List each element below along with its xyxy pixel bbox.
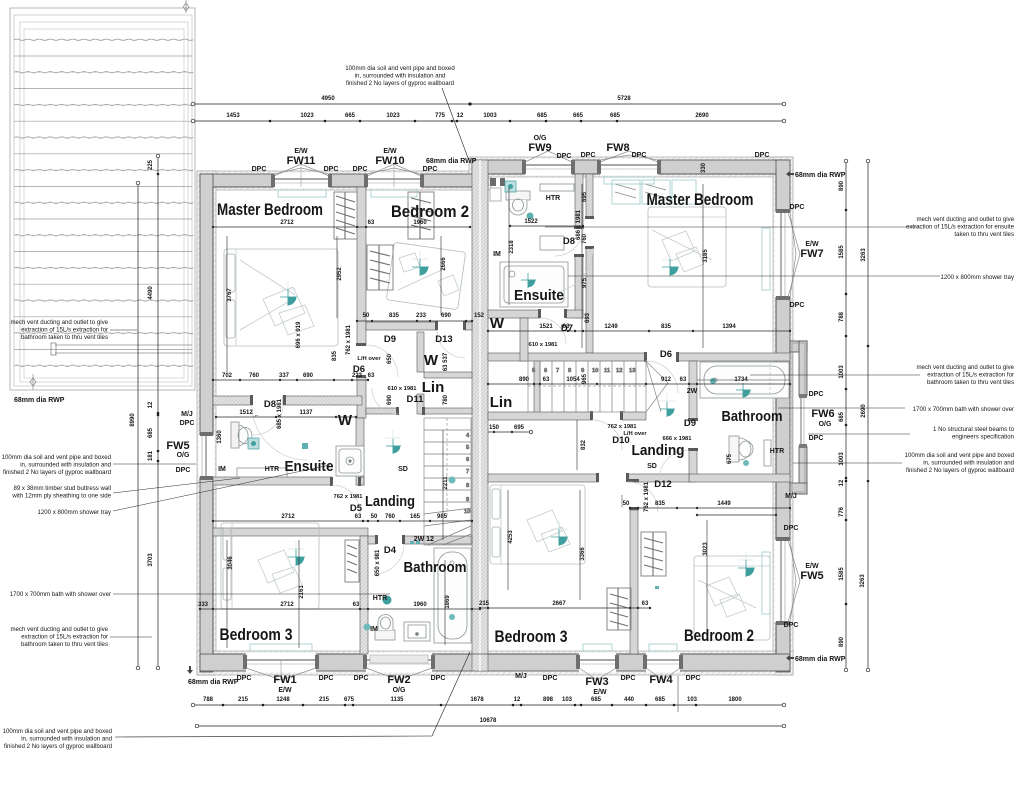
svg-text:3703: 3703 [148,553,154,567]
light bathroom right [736,383,751,398]
wall B2 bottom left house [366,322,437,330]
svg-text:2667: 2667 [552,601,566,607]
svg-text:890: 890 [519,377,530,383]
toilet bathroom right [729,436,753,462]
window FW2 [363,653,435,681]
light B2 right [738,560,755,577]
tallboy B2 left mid [367,245,393,290]
wall bedroom3 top left house [213,528,368,536]
svg-text:890: 890 [839,180,845,191]
dim row ensuite left [215,410,357,418]
svg-text:912: 912 [661,377,672,383]
svg-text:SD: SD [647,463,657,470]
svg-text:E/W: E/W [278,687,292,694]
svg-text:11: 11 [604,368,611,374]
light MB left [280,289,297,306]
svg-text:2712: 2712 [280,602,294,608]
svg-text:337: 337 [279,373,290,379]
wall top left house [200,174,488,187]
svg-text:10678: 10678 [480,718,497,724]
svg-text:3366: 3366 [580,547,586,561]
svg-text:E/W: E/W [805,563,819,570]
wall MB/B2 divider left house [357,187,366,345]
svg-text:68mm dia RWP: 68mm dia RWP [795,656,846,663]
svg-text:1200 x 800mm shower tray: 1200 x 800mm shower tray [941,274,1015,281]
svg-text:333: 333 [198,602,209,608]
svg-text:1248: 1248 [276,697,290,703]
svg-text:2W: 2W [414,536,425,543]
dimension left 8990 [130,181,140,670]
svg-text:DPC: DPC [581,152,596,159]
svg-text:Bathroom: Bathroom [404,559,467,576]
svg-text:233: 233 [416,313,427,319]
wall MB bottom / stair top right house [488,353,646,361]
dimension row bottom segments [191,697,786,707]
svg-text:12: 12 [457,113,464,119]
svg-text:DPC: DPC [790,204,805,211]
svg-text:2318: 2318 [509,240,515,254]
wall bottom [200,654,790,671]
svg-text:68mm dia RWP: 68mm dia RWP [426,158,477,165]
svg-text:DPC: DPC [790,302,805,309]
svg-text:12: 12 [616,368,622,374]
wall lin right house [534,361,540,414]
light B2 left [412,259,429,276]
annotation right steel beams [933,426,1015,441]
svg-text:DPC: DPC [784,622,799,629]
svg-text:in, surrounded with insulation: in, surrounded with insulation and [355,73,446,80]
wall B3/B2 divider right house [630,510,638,654]
svg-text:12: 12 [148,401,154,408]
svg-text:215: 215 [479,601,490,607]
furniture [221,177,789,651]
svg-text:152: 152 [474,313,485,319]
dot ensuite left shower [302,443,308,449]
svg-text:5728: 5728 [617,96,631,102]
svg-text:W: W [490,315,505,332]
svg-text:215: 215 [319,697,330,703]
svg-text:DPC: DPC [319,675,334,682]
svg-text:D6: D6 [660,349,672,360]
DPC labels right [784,204,824,629]
svg-text:IM: IM [218,466,226,473]
svg-text:W: W [338,412,353,429]
dim row ensuite right house [487,324,791,332]
dim 1522 ensuite right [509,219,584,227]
svg-text:665: 665 [573,113,584,119]
svg-text:FW6: FW6 [811,408,834,420]
svg-text:1585: 1585 [839,567,845,581]
svg-text:HTR: HTR [770,448,784,455]
leader line bottom annotation [432,652,470,736]
wall MB left right house [586,174,593,218]
roof marker top [183,3,189,11]
svg-text:DPC: DPC [809,435,824,442]
DPC labels bottom [237,673,701,682]
stair left house [424,418,471,545]
svg-text:898: 898 [543,697,554,703]
annotation right mech vent ensuite [906,216,1015,238]
svg-text:Master Bedroom: Master Bedroom [647,191,754,209]
dim row bathroom right house [623,501,792,509]
bath bathroom right [700,362,789,398]
bed bedroom2 left [386,242,465,309]
window FW4 [643,653,683,681]
svg-text:bathroom taken to thru vent ti: bathroom taken to thru vent tiles [21,334,108,341]
bed bedroom3 right [490,485,585,564]
svg-text:4490: 4490 [148,286,154,300]
svg-text:1869: 1869 [445,595,451,609]
svg-text:Ensuite: Ensuite [285,458,334,475]
svg-text:O/G: O/G [177,452,190,459]
svg-text:1585: 1585 [839,245,845,259]
svg-text:12: 12 [426,536,434,543]
svg-text:FW11: FW11 [287,155,316,167]
svg-text:4950: 4950 [321,96,335,102]
svg-text:650: 650 [387,353,393,364]
svg-text:DPC: DPC [557,153,572,160]
wall stairs bottom right house [488,412,592,420]
svg-text:68mm dia RWP: 68mm dia RWP [14,397,65,404]
flat roof hatched block top-left [10,0,195,390]
svg-text:1003: 1003 [839,365,845,379]
dim row B2 bottom left [356,313,485,322]
svg-text:D4: D4 [384,545,397,556]
svg-text:100mm dia soil and vent pipe a: 100mm dia soil and vent pipe and boxed [345,65,454,72]
wardrobe MB right top [612,180,696,204]
svg-text:DPC: DPC [237,675,252,682]
svg-text:63 537: 63 537 [443,352,449,371]
svg-text:D7: D7 [561,323,573,334]
door size labels [255,342,692,500]
svg-text:89 x 38mm timber stud buttress: 89 x 38mm timber stud buttress wall [13,485,111,492]
svg-text:8990: 8990 [130,413,136,427]
annotation right soil vent [905,452,1014,474]
svg-text:2712: 2712 [280,220,294,226]
svg-text:D12: D12 [654,479,671,490]
dimension right totals [860,159,870,672]
window FW10 [364,164,424,189]
dimension left chain [148,154,160,670]
svg-text:in, surrounded with insulation: in, surrounded with insulation and [20,462,111,469]
light landing right [660,402,675,417]
svg-text:HTR: HTR [265,466,279,473]
svg-text:1023: 1023 [386,113,400,119]
wardrobe B2 right [641,532,666,576]
wall bathroom left leg left house [360,536,368,654]
dim 150/695 small left lin right house [488,425,533,434]
svg-text:Bedroom 3: Bedroom 3 [495,628,568,646]
svg-text:1800: 1800 [728,697,742,703]
wall landing top left house [366,408,398,414]
svg-text:FW3: FW3 [585,676,608,688]
bed master bedroom left [224,249,338,346]
svg-text:finished 2 No layers of gyproc: finished 2 No layers of gyproc wallboard [346,80,454,87]
svg-text:181: 181 [148,450,154,461]
door jamb blocks [250,216,698,544]
svg-text:1137: 1137 [299,410,313,416]
small labels [14,135,846,712]
svg-text:DPC: DPC [431,675,446,682]
svg-text:Landing: Landing [365,493,415,510]
svg-text:DPC: DPC [621,675,636,682]
svg-text:DPC: DPC [324,166,339,173]
svg-text:685 x 1981: 685 x 1981 [277,398,283,429]
svg-text:IM: IM [370,626,378,633]
svg-text:3185: 3185 [703,249,709,263]
svg-text:440: 440 [624,697,635,703]
dim row bedroom3 right house [479,601,651,609]
svg-text:2W: 2W [687,388,698,395]
svg-text:63: 63 [543,377,550,383]
wall bathroom top left house [368,536,376,544]
window FW5 right [775,537,801,625]
svg-text:762 x 1981: 762 x 1981 [333,494,363,500]
svg-text:mech vent ducting and outlet t: mech vent ducting and outlet to give [916,216,1014,223]
svg-text:SD: SD [398,466,408,473]
svg-text:3263: 3263 [861,248,867,262]
svg-text:extraction of 15L/s extraction: extraction of 15L/s extraction for [21,327,108,334]
meter boxes party wall top [490,178,505,186]
light B3 right [551,529,568,546]
annotation left buttress [11,485,111,500]
svg-text:E/W: E/W [294,148,308,155]
svg-text:mech vent ducting and outlet t: mech vent ducting and outlet to give [10,319,108,326]
annotation right mech vent bathroom [916,364,1014,386]
radiator marks under windows [250,177,770,651]
svg-text:776: 776 [839,506,845,517]
svg-text:1023: 1023 [300,113,314,119]
dot bath left [449,477,456,484]
svg-text:1054: 1054 [566,377,580,383]
svg-text:finished 2 No layers of gyproc: finished 2 No layers of gyproc wallboard [4,743,112,750]
svg-text:Landing: Landing [632,442,685,459]
svg-text:788: 788 [839,311,845,322]
svg-text:M/J: M/J [181,411,193,418]
dimension lines [115,88,870,737]
im dot bathroom left [364,624,371,631]
wall ensuite right house east [575,174,583,228]
svg-text:1 No structural steel beams to: 1 No structural steel beams to [933,426,1015,433]
svg-text:2952: 2952 [337,267,343,281]
dimension right chain [839,159,848,672]
exterior walls [197,151,808,680]
svg-text:2712: 2712 [281,514,295,520]
svg-text:mech vent ducting and outlet t: mech vent ducting and outlet to give [916,364,1014,371]
svg-text:2690: 2690 [861,404,867,418]
svg-text:1249: 1249 [604,324,618,330]
svg-text:7: 7 [466,469,469,475]
svg-text:Bedroom 2: Bedroom 2 [391,203,469,221]
svg-text:1521: 1521 [539,324,553,330]
dimension row top overall [191,96,786,106]
svg-text:DPC: DPC [176,467,191,474]
dot bathroom right bath [710,378,716,384]
wall W/Lin horizontal left house [424,372,472,378]
svg-text:610 x 1981: 610 x 1981 [387,386,417,392]
svg-text:3046: 3046 [228,556,234,570]
svg-text:D5: D5 [350,503,363,514]
svg-text:650 x 981: 650 x 981 [375,549,381,576]
svg-text:685: 685 [148,427,154,438]
sink bathroom left [404,622,430,641]
dot bathroom right toilet [743,460,749,466]
svg-text:FW2: FW2 [387,674,410,686]
svg-text:E/W: E/W [383,148,397,155]
svg-text:in, surrounded with insulation: in, surrounded with insulation and [21,736,112,743]
window FW3 [576,653,619,681]
svg-text:685: 685 [591,697,602,703]
roof marker bottom [30,378,36,386]
svg-text:L/H over: L/H over [357,356,381,362]
svg-text:Ensuite: Ensuite [514,287,564,304]
window FW11 [271,164,332,189]
wall landing/bathroom divider right house [689,361,697,420]
svg-text:FW5: FW5 [800,570,823,582]
svg-text:675: 675 [344,697,355,703]
svg-text:2690: 2690 [695,113,709,119]
svg-text:762 x 1981: 762 x 1981 [607,424,637,430]
svg-text:O/G: O/G [819,421,832,428]
bed bedroom3 left [221,523,319,609]
svg-text:330: 330 [701,162,707,173]
svg-text:O/G: O/G [534,135,547,142]
wall W/Lin divider left house [417,332,424,372]
teal fixture dots [248,181,749,631]
dot ensuite right toilet [527,213,534,220]
vertical interior dims left house [217,257,451,609]
svg-text:2666: 2666 [441,257,447,271]
svg-text:13: 13 [629,368,636,374]
svg-text:762 x 1981: 762 x 1981 [346,324,352,355]
wall top right house [472,160,790,174]
interior vertical dim lines [227,184,707,648]
svg-text:100mm dia soil and vent pipe a: 100mm dia soil and vent pipe and boxed [905,452,1014,459]
annotation left soil vent [2,454,111,476]
svg-text:1003: 1003 [839,452,845,466]
svg-text:3767: 3767 [227,288,233,302]
svg-text:bathroom taken to thru vent ti: bathroom taken to thru vent tiles [21,641,108,648]
svg-text:M/J: M/J [785,493,797,500]
svg-text:engineers specification: engineers specification [952,434,1014,441]
svg-text:832: 832 [581,439,587,450]
svg-text:665: 665 [345,113,356,119]
svg-text:FW8: FW8 [606,142,629,154]
dim 1734 line in bath [697,379,790,381]
dim row bedroom3 left [198,602,481,610]
extract fan ensuite left [248,438,259,449]
svg-text:1135: 1135 [390,697,404,703]
wall ensuite right left house [356,418,364,485]
svg-text:DPC: DPC [686,675,701,682]
extract fan ensuite right [505,181,516,192]
svg-text:775: 775 [435,113,446,119]
svg-text:965: 965 [582,373,588,384]
svg-text:Bedroom 2: Bedroom 2 [684,627,754,645]
svg-text:FW10: FW10 [375,155,404,167]
bed master bedroom right [648,207,726,287]
svg-text:100mm dia soil and vent pipe a: 100mm dia soil and vent pipe and boxed [2,454,111,461]
wall right [776,160,790,672]
svg-text:63: 63 [353,602,360,608]
svg-text:686 x 1981: 686 x 1981 [576,209,582,240]
svg-text:in, surrounded with insulation: in, surrounded with insulation and [923,460,1014,467]
svg-text:L/H over: L/H over [623,431,647,437]
dim 1449 bathroom right lower [696,514,777,516]
stud wall MB bottom left house [213,396,252,405]
svg-text:68mm dia RWP: 68mm dia RWP [188,679,239,686]
vertical interior dims right house [508,162,733,560]
svg-text:685: 685 [610,113,621,119]
svg-text:Bathroom: Bathroom [722,408,783,425]
svg-text:DPC: DPC [632,152,647,159]
svg-text:10: 10 [592,368,598,374]
wall W closet right house [520,318,528,361]
svg-text:685: 685 [537,113,548,119]
annotation top soil vent [345,65,454,87]
svg-text:IM: IM [493,251,501,258]
svg-text:10: 10 [464,509,470,515]
dimension row bottom overall 10678 [195,718,786,728]
svg-text:1960: 1960 [413,602,427,608]
wall landing bottom right house [488,474,598,482]
svg-text:760: 760 [582,233,588,244]
svg-text:D9: D9 [384,334,396,345]
wall ensuite bottom left house [213,477,332,485]
svg-text:O/G: O/G [393,687,406,694]
dimension row top segments [191,113,786,123]
room labels [217,191,783,646]
svg-text:bathroom taken to thru vent ti: bathroom taken to thru vent tiles [927,379,1014,386]
svg-text:225: 225 [148,159,154,170]
shower tray ensuite right [500,262,568,307]
toilet bathroom left [375,615,395,641]
svg-text:100mm dia soil and vent pipe a: 100mm dia soil and vent pipe and boxed [3,728,112,735]
svg-text:Master Bedroom: Master Bedroom [217,201,323,219]
svg-text:2161: 2161 [299,585,305,599]
svg-text:2211: 2211 [443,476,449,490]
svg-text:extraction of 15L/s extraction: extraction of 15L/s extraction for ensui… [906,224,1015,231]
basin ensuite left [237,468,287,477]
svg-text:Bedroom 3: Bedroom 3 [220,626,293,644]
bay window FW6 [790,341,808,494]
svg-text:Lin: Lin [422,379,445,396]
dim row corridor left [212,373,375,381]
svg-text:666 x 1981: 666 x 1981 [662,436,692,442]
svg-text:1522: 1522 [524,219,538,225]
light landing left [386,439,401,454]
svg-text:DPC: DPC [755,152,770,159]
svg-text:DPC: DPC [252,166,267,173]
svg-text:63: 63 [368,373,375,379]
teal symbols [248,181,755,631]
svg-text:50: 50 [623,501,630,507]
window FW7 [775,209,801,300]
svg-text:760: 760 [249,373,260,379]
svg-text:693: 693 [585,312,591,323]
svg-text:DPC: DPC [784,525,799,532]
svg-text:FW7: FW7 [800,248,823,260]
svg-text:702: 702 [222,373,233,379]
svg-text:760: 760 [385,514,396,520]
svg-text:FW9: FW9 [528,142,551,154]
svg-text:150: 150 [489,425,500,431]
dot bath left low [449,614,455,620]
svg-text:FW4: FW4 [649,674,673,686]
svg-text:FW1: FW1 [273,674,296,686]
htr dot bathroom left [383,596,392,605]
interior face lines [212,187,214,654]
